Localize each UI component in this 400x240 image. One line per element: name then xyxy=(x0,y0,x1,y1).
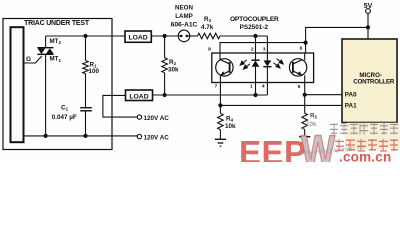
triac Q1 xyxy=(37,36,53,136)
node: pin5/R5/PA0 xyxy=(303,93,307,97)
socket fixture rectangle xyxy=(11,27,24,142)
svg-text:TRIAC UNDER TEST: TRIAC UNDER TEST xyxy=(24,20,90,27)
svg-text:120V AC: 120V AC xyxy=(144,134,170,141)
wire PA0 xyxy=(305,94,342,96)
node: pin6 / 5V rail xyxy=(304,41,308,45)
resistor R2 xyxy=(162,36,168,95)
svg-text:120V AC: 120V AC xyxy=(144,115,170,122)
svg-text:6: 6 xyxy=(300,45,303,51)
svg-text:8: 8 xyxy=(208,46,211,52)
svg-text:2: 2 xyxy=(251,46,254,52)
wire after LOAD1 xyxy=(151,35,178,37)
ground GND2 xyxy=(299,137,310,144)
svg-text:NEON: NEON xyxy=(175,4,193,11)
svg-text:PA1: PA1 xyxy=(345,102,357,109)
watermark faint url xyxy=(297,143,365,157)
svg-text:W: W xyxy=(301,126,335,162)
LED D1 (pins 2-1) xyxy=(251,36,259,95)
watermark gray CJK text pattern xyxy=(330,123,398,134)
svg-text:LOAD: LOAD xyxy=(128,35,147,42)
phototransistor ch1 xyxy=(216,53,233,83)
svg-text:10k: 10k xyxy=(225,123,236,130)
svg-text:4: 4 xyxy=(262,83,265,89)
watermark panel xyxy=(345,123,400,150)
svg-text:1: 1 xyxy=(250,83,253,89)
wire R3 to LEDs xyxy=(220,35,268,37)
light arrows ch2 xyxy=(273,59,283,68)
light arrows ch1 xyxy=(240,60,250,69)
node: pin7/R4/PA1 xyxy=(218,103,222,107)
svg-text:CONTROLLER: CONTROLLER xyxy=(353,78,395,85)
svg-text:4.7k: 4.7k xyxy=(201,24,214,31)
svg-text:7: 7 xyxy=(215,83,218,89)
LOAD box 1 xyxy=(125,31,151,42)
node: pin1 xyxy=(253,93,257,97)
wire: pin5 lead down xyxy=(304,83,306,114)
svg-text:5V: 5V xyxy=(364,3,373,10)
resistor R4 xyxy=(218,113,224,138)
ground GND1 xyxy=(215,139,226,146)
wire: main top rail xyxy=(46,35,125,37)
svg-text:PS2501-2: PS2501-2 xyxy=(240,24,269,31)
svg-text:100: 100 xyxy=(89,68,100,75)
phototransistor ch2 xyxy=(289,53,306,83)
node: R2 bottom xyxy=(163,93,167,97)
svg-text:3: 3 xyxy=(263,46,266,52)
optocoupler box U1 xyxy=(212,53,314,83)
neon lamp xyxy=(178,30,190,42)
wire: bottom rail xyxy=(24,135,138,137)
svg-text:5: 5 xyxy=(298,84,301,90)
5V supply terminal xyxy=(364,3,373,39)
resistor R5 xyxy=(302,113,308,136)
resistor R1 xyxy=(83,36,89,107)
gate wire xyxy=(24,56,42,63)
node: 5V feed xyxy=(366,25,370,29)
wire PA1 xyxy=(220,104,342,106)
wire: LED return line xyxy=(153,94,268,96)
node: pin 2 tap xyxy=(253,34,257,38)
svg-text:606-A1C: 606-A1C xyxy=(171,22,198,29)
svg-text:LOAD: LOAD xyxy=(129,93,148,100)
watermark W letter xyxy=(301,126,335,175)
svg-text:0.047 µF: 0.047 µF xyxy=(52,114,77,121)
enclosure box: TRIAC UNDER TEST xyxy=(3,19,112,150)
svg-text:LAMP: LAMP xyxy=(175,13,193,20)
microcontroller U2 xyxy=(342,39,397,123)
resistor R3 xyxy=(198,33,220,39)
capacitor C1 xyxy=(80,108,92,136)
wire: collectors 5V rail xyxy=(220,27,368,53)
wire lamp to R3 xyxy=(190,35,198,37)
svg-text:G: G xyxy=(26,56,31,63)
svg-text:30k: 30k xyxy=(168,66,179,73)
watermark red script CJK xyxy=(335,139,398,151)
svg-text:OPTOCOUPLER: OPTOCOUPLER xyxy=(230,16,279,23)
LOAD box 2 xyxy=(126,90,153,101)
LED D2 (pins 3-4) xyxy=(263,36,271,95)
terminal: 120V AC upper xyxy=(103,95,169,121)
node: C1 on rail xyxy=(83,134,87,138)
node: triac MT1 on rail xyxy=(44,134,48,138)
wire: pin7 lead down xyxy=(219,83,221,114)
node: MT2/R1 junction xyxy=(83,34,87,38)
terminal: 120V AC lower xyxy=(137,134,169,141)
node: R2 tap xyxy=(163,34,167,38)
svg-text:PA0: PA0 xyxy=(345,91,357,98)
